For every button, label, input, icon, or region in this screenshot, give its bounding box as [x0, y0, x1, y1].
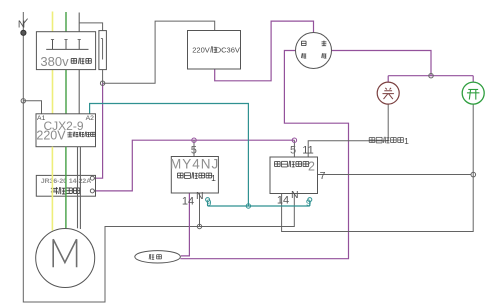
svg-text:N: N	[196, 190, 204, 202]
svg-text:220V: 220V	[36, 129, 66, 143]
svg-text:A2: A2	[86, 115, 95, 122]
svg-text:1: 1	[404, 136, 409, 146]
svg-text:5: 5	[290, 144, 296, 156]
svg-text:380v: 380v	[40, 54, 69, 69]
svg-text:2: 2	[308, 160, 315, 174]
svg-text:7: 7	[320, 170, 326, 182]
svg-text:14: 14	[277, 195, 289, 207]
svg-text:9: 9	[206, 198, 211, 209]
svg-text:1: 1	[211, 173, 216, 183]
svg-text:11: 11	[302, 145, 313, 157]
svg-text:MY4NJ: MY4NJ	[170, 157, 219, 172]
svg-text:N: N	[291, 189, 299, 201]
svg-text:220V: 220V	[192, 45, 210, 54]
svg-text:5: 5	[191, 144, 197, 156]
svg-text:DC36V: DC36V	[216, 45, 240, 54]
svg-text:14: 14	[182, 196, 194, 208]
svg-text:9: 9	[306, 198, 311, 209]
svg-text:N: N	[18, 20, 25, 31]
